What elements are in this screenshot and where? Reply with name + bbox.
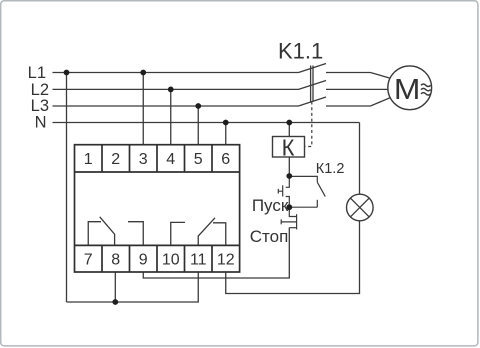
node L1 terminal 3 (140, 70, 146, 76)
contactor K1.1 linkage bar (311, 66, 313, 102)
button Стоп lower contact (289, 227, 296, 229)
relay module outline (75, 145, 240, 272)
svg-text:12: 12 (217, 252, 235, 269)
wire L2 to terminal 4 (170, 89, 172, 144)
button Пуск upper contact (286, 176, 290, 187)
svg-text:К1.2: К1.2 (316, 161, 345, 177)
relay contact blade 8 (100, 217, 115, 245)
terminal row 1-6 (75, 145, 240, 172)
wire L2 bus (53, 88, 299, 90)
button Стоп bridge (296, 214, 298, 229)
terminal numbers 7-12 (84, 252, 235, 269)
wire left drop L1 to bottom rail (66, 73, 68, 303)
svg-text:10: 10 (162, 252, 180, 269)
terminal numbers 1-6 (84, 151, 231, 168)
relay contact fixed 9 (128, 222, 143, 245)
button Стоп actuator (281, 219, 296, 224)
svg-text:8: 8 (111, 252, 120, 269)
relay contact blade 11 (198, 218, 215, 245)
svg-text:K1.1: K1.1 (278, 39, 323, 64)
wire K1.1 to motor middle (326, 88, 388, 90)
wire K1.1 to motor bottom (326, 98, 390, 106)
wire N to terminal 6 (225, 123, 227, 145)
relay contact fixed 10 (171, 222, 185, 244)
button Пуск bridge (282, 185, 284, 196)
node L1 left drop (64, 70, 70, 76)
svg-text:M: M (394, 74, 421, 106)
svg-text:5: 5 (194, 151, 203, 168)
wire terminal 9 to Stop button (143, 228, 289, 279)
wire K1.1 to motor top (326, 73, 390, 79)
svg-text:К: К (282, 135, 295, 161)
motor M1 AC waves (421, 84, 431, 95)
node L2 terminal 4 (168, 87, 174, 93)
svg-text:2: 2 (111, 151, 120, 168)
svg-text:N: N (35, 114, 47, 132)
relay contact fixed 7 (88, 222, 101, 245)
button Пуск actuator (278, 189, 282, 194)
coil K box (273, 137, 305, 158)
wire L3 to terminal 5 (197, 106, 199, 145)
wire N to coil K (288, 123, 290, 137)
contactor K1.1 blade L1 (299, 64, 327, 73)
node N coil K (286, 120, 292, 126)
wire bottom rail to terminal 11 (67, 272, 199, 302)
contact K1.2 top wire (289, 176, 317, 182)
terminal row 7-12 (75, 245, 240, 272)
button Стоп upper contact (289, 207, 296, 216)
lamp HL cross (350, 198, 369, 217)
wire L3 bus (53, 105, 299, 107)
svg-text:3: 3 (139, 151, 148, 168)
svg-text:Стоп: Стоп (250, 227, 289, 246)
svg-text:11: 11 (190, 252, 207, 269)
button Пуск lower contact (286, 197, 290, 208)
contactor K1.1 blade L2 (299, 81, 327, 90)
wire coil K to node A (288, 157, 290, 176)
wire N corner down to lamp top (359, 123, 361, 195)
node L3 terminal 5 (195, 103, 201, 109)
node B Пуск bottom (286, 204, 292, 210)
relay contact fixed 12 (213, 223, 226, 245)
motor M1 circle (388, 66, 432, 110)
contactor K1.1 blade L3 (299, 97, 327, 106)
svg-text:Пуск: Пуск (252, 196, 289, 215)
svg-text:7: 7 (84, 252, 93, 269)
wire L1 bus (53, 72, 299, 74)
wire L1 to terminal 3 (142, 73, 144, 145)
svg-text:6: 6 (221, 151, 230, 168)
node N terminal 6 (223, 120, 229, 126)
node A coil to buttons (286, 173, 292, 179)
svg-text:L3: L3 (31, 97, 49, 115)
wire terminal 12 to lamp bottom (226, 221, 360, 294)
contact K1.2 bottom wire (289, 206, 317, 208)
lamp HL circle (347, 194, 374, 221)
contact K1.2 blade (317, 182, 325, 196)
wire N bus (53, 122, 360, 124)
svg-text:L1: L1 (28, 64, 46, 82)
svg-text:9: 9 (139, 252, 148, 269)
node bottom rail terminal 8 (112, 299, 118, 305)
svg-text:1: 1 (84, 151, 93, 168)
svg-text:4: 4 (166, 151, 175, 168)
contact K1.2 fixed (316, 200, 318, 207)
dashed link K1.1 to coil K (305, 102, 312, 147)
wire terminal 8 stub (114, 272, 116, 302)
